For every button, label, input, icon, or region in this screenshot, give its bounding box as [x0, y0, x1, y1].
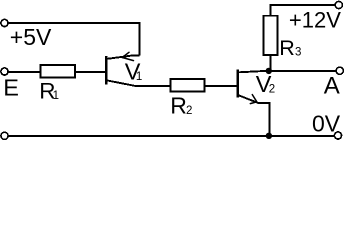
- wire E to R1: [8, 71, 40, 73]
- terminal +5V input: [1, 19, 8, 26]
- transistor V2 collector lead: [239, 71, 266, 72]
- svg-text:2: 2: [186, 105, 192, 117]
- svg-text:+12V: +12V: [289, 7, 341, 32]
- svg-text:A: A: [324, 72, 340, 99]
- terminal 0V right: [334, 132, 341, 139]
- wire R3 top to +12V terminal: [270, 5, 335, 16]
- transistor V1 collector lead: [108, 81, 171, 86]
- transistor V2 base bar: [236, 70, 238, 98]
- terminal 0V left: [1, 132, 8, 139]
- svg-text:+5V: +5V: [10, 24, 52, 50]
- terminal +12V: [335, 1, 342, 8]
- arrow V1 emitter (PNP open barbs toward base): [122, 52, 133, 60]
- terminal E input: [1, 68, 8, 75]
- wire R1 to V1 base: [75, 71, 105, 73]
- svg-text:3: 3: [295, 47, 301, 59]
- wire 0V rail: [8, 135, 334, 137]
- svg-text:E: E: [3, 74, 19, 100]
- transistor V2 emitter lead: [239, 95, 270, 136]
- resistor R3: [264, 16, 278, 55]
- resistor R1: [41, 65, 76, 77]
- svg-text:R: R: [170, 92, 187, 118]
- wire top rail from +5V terminal to V1 emitter drop: [8, 23, 139, 56]
- junction node emitter/0V rail: [266, 133, 272, 139]
- svg-text:R: R: [279, 36, 295, 60]
- svg-text:1: 1: [53, 90, 59, 102]
- transistor V1 base bar: [105, 56, 107, 85]
- svg-text:1: 1: [136, 71, 142, 83]
- wire R3 bottom to collector node: [269, 55, 271, 71]
- svg-text:2: 2: [269, 84, 275, 96]
- transistor V1 emitter lead: [108, 56, 140, 59]
- wire node to A terminal: [270, 70, 336, 72]
- wire R2 to V2 base: [205, 85, 237, 87]
- svg-text:0V: 0V: [312, 110, 341, 136]
- resistor R2: [170, 79, 204, 92]
- terminal A output: [336, 67, 343, 74]
- arrow V2 emitter (NPN open barbs away from base): [250, 95, 256, 104]
- junction node collector/R3/A: [266, 68, 272, 74]
